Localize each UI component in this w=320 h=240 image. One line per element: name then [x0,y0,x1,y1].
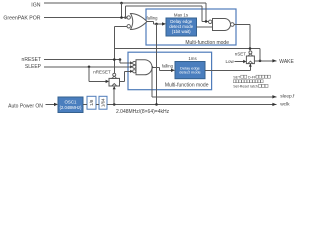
svg-text:(2.048MHz): (2.048MHz) [60,105,82,110]
svg-text:Auto Power ON: Auto Power ON [8,104,43,110]
svg-text:falling: falling [162,64,174,69]
svg-text:1ms: 1ms [188,56,197,61]
svg-text:nRESET: nRESET [22,57,41,63]
svg-text:IGN: IGN [31,2,40,8]
svg-text:falling: falling [147,16,159,21]
svg-text:1/8: 1/8 [89,99,94,106]
svg-text:Multi-function mode: Multi-function mode [185,40,229,46]
svg-text:nRESET: nRESET [93,69,111,74]
svg-text:2.048MHz/(8×64)=4kHz: 2.048MHz/(8×64)=4kHz [116,109,170,115]
svg-text:detect mode: detect mode [179,70,200,75]
svg-text:Max 1s: Max 1s [174,12,189,17]
svg-text:OSC1: OSC1 [65,100,78,105]
svg-text:SET: SET [233,75,241,79]
svg-text:(1bit wait): (1bit wait) [172,29,191,34]
svg-text:wclk: wclk [280,101,290,107]
svg-text:sleep.f: sleep.f [280,94,295,100]
svg-text:Low: Low [226,59,235,64]
svg-text:D-FF: D-FF [248,75,257,79]
svg-text:1/64: 1/64 [101,98,106,107]
svg-text:nSET: nSET [235,52,247,57]
svg-text:GreenPAK POR: GreenPAK POR [3,16,40,22]
svg-text:WAKE: WAKE [279,59,294,65]
svg-text:Set-Reset latch: Set-Reset latch [233,85,258,89]
svg-text:Multi-function mode: Multi-function mode [165,83,209,89]
svg-text:SLEEP: SLEEP [25,64,42,70]
